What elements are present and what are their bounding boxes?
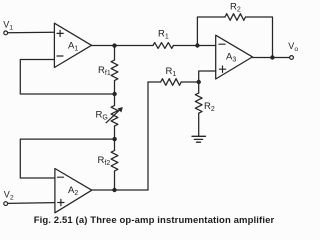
node Rf2 bottom <box>112 188 116 192</box>
op-amp A2 <box>55 169 92 213</box>
svg-text:Fig. 2.51 (a) Three op-amp ins: Fig. 2.51 (a) Three op-amp instrumentati… <box>34 215 275 226</box>
wire R2 to ground <box>198 113 200 136</box>
terminal Vo <box>288 41 298 59</box>
svg-text:Vo: Vo <box>288 41 298 53</box>
svg-text:V1: V1 <box>3 20 13 32</box>
wire R1 to node <box>181 81 199 83</box>
svg-text:R1: R1 <box>166 66 177 78</box>
wire V1 to A1 + input <box>8 31 55 34</box>
resistor Rf1 <box>98 60 118 80</box>
svg-text:RG: RG <box>96 110 108 122</box>
op-amp A1 <box>54 23 91 67</box>
wire node down to R2 <box>198 82 200 93</box>
wire RG to Rf2 <box>114 126 116 151</box>
wire A1 output to R1 <box>92 45 154 47</box>
resistor R2 (bottom) <box>195 93 215 113</box>
node A1 output / Rf1 top <box>112 43 116 47</box>
resistor R1 (bottom) <box>161 66 181 85</box>
terminal V2 <box>4 190 14 206</box>
wire A2 output row to corner <box>92 82 148 190</box>
node A3 output <box>270 55 274 59</box>
node Rf1/RG junction <box>112 92 116 96</box>
svg-text:R2: R2 <box>204 101 215 113</box>
node A3 + branch <box>197 80 201 84</box>
svg-text:A1: A1 <box>68 41 78 53</box>
svg-text:A3: A3 <box>226 52 236 64</box>
wire node up to A3 + input <box>199 71 216 82</box>
ground <box>192 136 206 142</box>
wire Rf1 to RG <box>114 81 116 106</box>
resistor R1 (top) <box>153 28 173 48</box>
wire A1 feedback loop <box>20 60 114 95</box>
resistor Rf2 <box>98 151 118 171</box>
svg-text:Rf1: Rf1 <box>98 65 111 77</box>
node A3 - input <box>195 43 199 47</box>
svg-text:A2: A2 <box>68 185 78 197</box>
svg-text:Rf2: Rf2 <box>98 155 111 167</box>
svg-text:R2: R2 <box>230 2 241 14</box>
resistor RG (variable) <box>96 106 123 126</box>
svg-text:V2: V2 <box>4 190 14 202</box>
wire corner to R1 bottom <box>148 81 161 83</box>
node RG/Rf2 junction <box>112 137 116 141</box>
wire R2 to output node <box>246 17 273 58</box>
wire V2 to A2 + input <box>8 202 55 205</box>
resistor R2 (feedback) <box>225 2 245 21</box>
wire R1 to A3 - input <box>173 45 215 47</box>
svg-text:R1: R1 <box>158 28 169 40</box>
wire A3 output to Vo <box>253 57 290 59</box>
op-amp A3 <box>216 35 253 79</box>
wire middle column top segment <box>114 46 116 61</box>
wire feedback up from node <box>197 17 225 46</box>
wire Rf2 to A2 output row <box>114 171 116 190</box>
wire A2 feedback loop <box>20 139 114 178</box>
terminal V1 <box>3 20 13 35</box>
